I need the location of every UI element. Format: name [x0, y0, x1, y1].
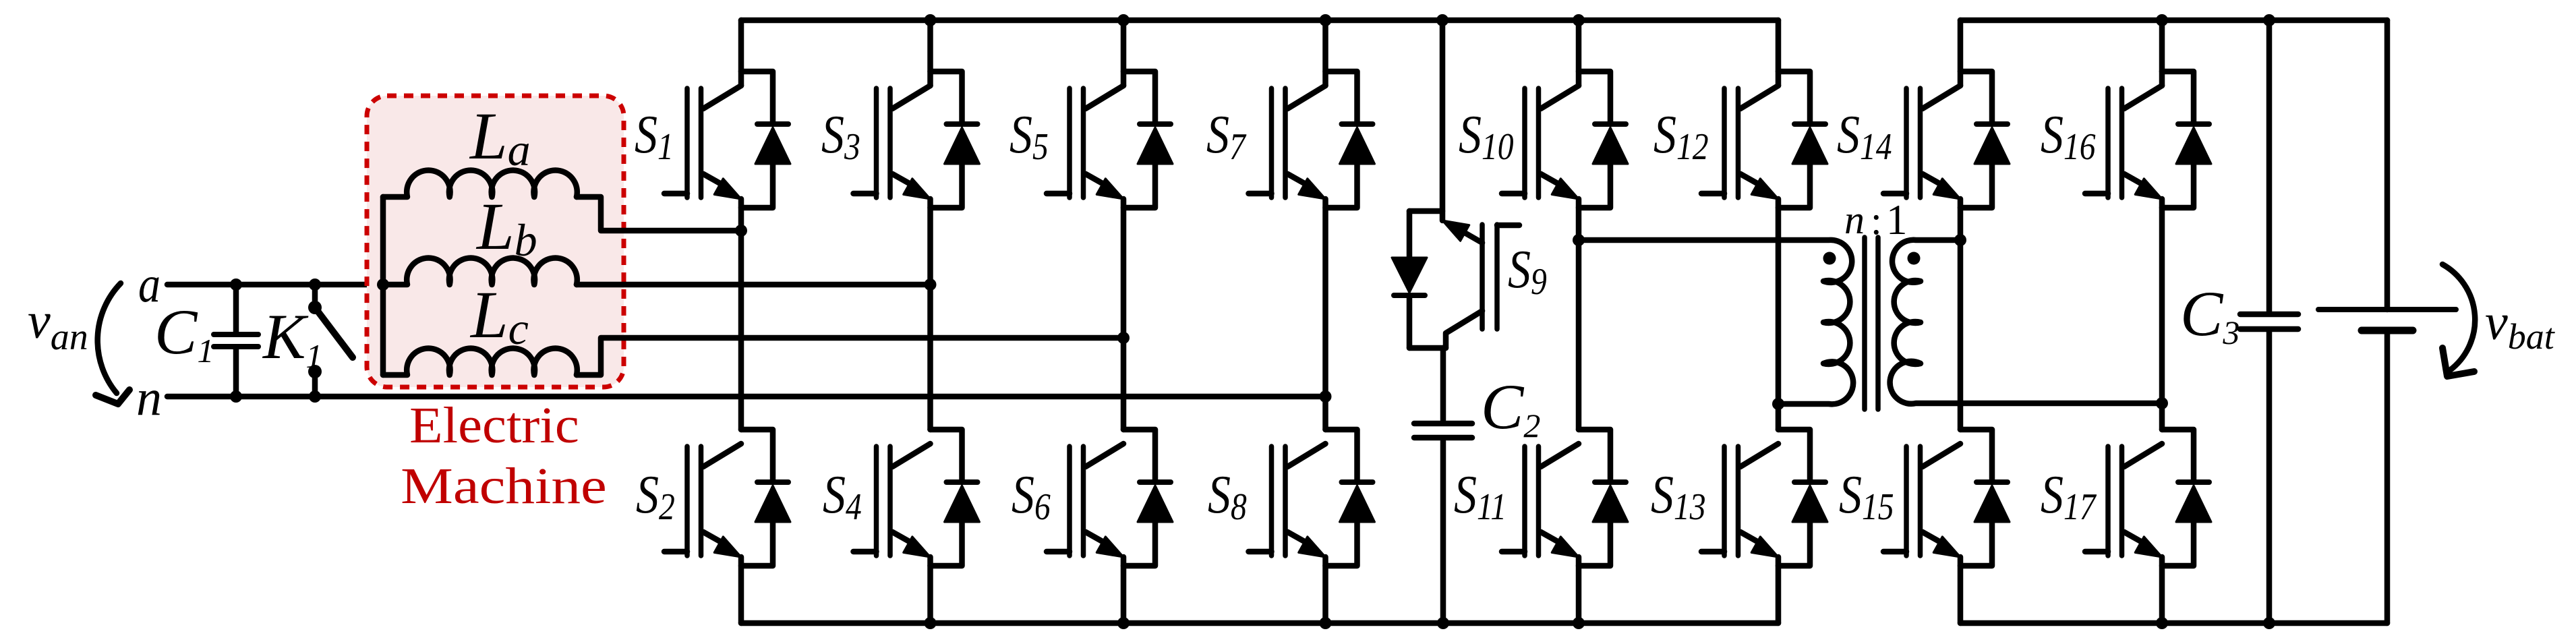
- junction top bus x=1965.5: [1320, 14, 1332, 26]
- capacitor C2 (clamp capacitor): [1414, 348, 1472, 623]
- node leg midpoint S3/S4: [925, 279, 937, 291]
- node leg midpoint S5/S6: [1117, 332, 1130, 344]
- label S8: [1208, 465, 1247, 528]
- label S14: [1837, 105, 1892, 168]
- label S4: [823, 465, 862, 528]
- label S17: [2041, 465, 2097, 528]
- svg-text:S17: S17: [2041, 465, 2097, 528]
- svg-text:S15: S15: [1839, 465, 1894, 528]
- label S6: [1012, 465, 1051, 528]
- switch K1 (contactor, open): [308, 285, 353, 397]
- label S16: [2041, 105, 2096, 168]
- svg-text:C3: C3: [2180, 278, 2240, 351]
- wire Lc output to leg S5/S6: [577, 338, 1123, 375]
- node leg midpoint S16/S17: [2156, 397, 2168, 409]
- transistor S3 (IGBT with freewheeling diode, upper switch): [854, 20, 980, 208]
- transformer core: [1862, 237, 1867, 409]
- wire leg midpoint vertical S1/S2: [738, 199, 744, 430]
- wire leg midpoint vertical S7/S8: [1322, 199, 1328, 430]
- label S1: [635, 105, 674, 168]
- wire top bus to S9 emitter: [1440, 20, 1446, 221]
- wire primary-side bottom DC bus: [741, 620, 1778, 626]
- svg-text:S14: S14: [1837, 105, 1892, 168]
- diode D9 (anti-parallel clamp diode): [1392, 211, 1446, 348]
- junction top bus x=1666: [1117, 14, 1130, 26]
- wire secondary-side top DC bus: [1960, 18, 2387, 24]
- junction bottom bus x=1379.5: [925, 617, 937, 629]
- wire leg midpoint vertical S16/S17: [2159, 199, 2165, 430]
- svg-text:S1: S1: [635, 105, 674, 168]
- wire La output to leg S1/S2: [577, 197, 741, 231]
- label Electric (machine caption line 1): [409, 397, 579, 453]
- svg-text:S6: S6: [1012, 465, 1051, 528]
- wire neutral n to leg S7/S8: [167, 394, 1326, 400]
- transistor S13 (IGBT with freewheeling diode, lower switch): [1701, 430, 1827, 623]
- wire leg midpoint vertical S14/S15: [1958, 199, 1964, 430]
- wire primary-side top DC bus: [741, 18, 1778, 24]
- wire leg midpoint vertical S10/S11: [1576, 199, 1582, 430]
- junction secondary top bus x=3206: [2156, 14, 2168, 26]
- transistor S6 (IGBT with freewheeling diode, lower switch): [1047, 430, 1173, 623]
- junction secondary bottom bus x=3206: [2156, 617, 2168, 629]
- junction top bus x=1379.5: [925, 14, 937, 26]
- wire leg midpoint vertical S12/S13: [1776, 199, 1782, 430]
- svg-text:S8: S8: [1208, 465, 1247, 528]
- junction C1 top: [230, 279, 242, 291]
- svg-text:n:1: n:1: [1844, 196, 1908, 243]
- svg-text:S12: S12: [1653, 105, 1709, 168]
- label S10: [1459, 105, 1514, 168]
- transistor S7 (IGBT with freewheeling diode, upper switch): [1249, 20, 1375, 208]
- svg-text:van: van: [28, 293, 88, 358]
- wire secondary-side bottom DC bus: [1960, 620, 2387, 626]
- node a (phase terminal label): [138, 257, 160, 313]
- svg-text:S7: S7: [1206, 105, 1247, 168]
- transistor S15 (IGBT with freewheeling diode, lower switch): [1883, 430, 2010, 623]
- junction bottom bus x=2341: [1573, 617, 1585, 629]
- wire leg midpoint vertical S3/S4: [927, 199, 933, 430]
- transistor S16 (IGBT with freewheeling diode, upper switch): [2085, 20, 2211, 208]
- transistor S1 (IGBT with freewheeling diode, upper switch): [664, 20, 790, 208]
- junction bottom bus x=1666: [1117, 617, 1130, 629]
- svg-text:S2: S2: [636, 465, 675, 528]
- voltage v_an curved arrow: [98, 283, 121, 393]
- wire S10/S11 midpoint to transformer primary + primary winding: [1579, 240, 1853, 404]
- label S3: [821, 105, 860, 168]
- label S5: [1009, 105, 1049, 168]
- junction bottom bus x=1965.5: [1320, 617, 1332, 629]
- label S15: [1839, 465, 1894, 528]
- node leg midpoint S10/S11: [1573, 234, 1585, 246]
- svg-text:C2: C2: [1481, 371, 1540, 444]
- junction C1 bottom: [230, 390, 242, 403]
- svg-text:vbat: vbat: [2485, 294, 2556, 357]
- label Machine (machine caption line 2): [401, 457, 607, 514]
- svg-text:C1: C1: [154, 296, 214, 370]
- wire leg midpoint vertical S5/S6: [1121, 199, 1127, 430]
- transistor S2 (IGBT with freewheeling diode, lower switch): [664, 430, 790, 623]
- junction K1 bottom: [309, 390, 321, 403]
- svg-text:S5: S5: [1009, 105, 1049, 168]
- transistor S10 (IGBT with freewheeling diode, upper switch): [1502, 20, 1628, 208]
- capacitor C1: [214, 285, 258, 397]
- transformer primary polarity dot: [1823, 252, 1836, 265]
- node leg midpoint S1/S2: [735, 225, 747, 237]
- junction secondary top bus x=3365: [2263, 14, 2275, 26]
- junction top bus x=2341: [1573, 14, 1585, 26]
- transistor S14 (IGBT with freewheeling diode, upper switch): [1883, 20, 2010, 208]
- label S12: [1653, 105, 1709, 168]
- svg-text:S11: S11: [1454, 465, 1506, 528]
- wire transformer secondary winding to S14/S15 and S16/S17 midpoints: [1890, 240, 2162, 404]
- transistor S5 (IGBT with freewheeling diode, upper switch): [1047, 20, 1173, 208]
- label S2: [636, 465, 675, 528]
- voltage v_bat curved arrow: [2442, 264, 2475, 370]
- svg-text:Electric: Electric: [409, 397, 579, 453]
- svg-text:S16: S16: [2041, 105, 2096, 168]
- inductor La (machine phase a winding): [383, 171, 577, 197]
- transistor S4 (IGBT with freewheeling diode, lower switch): [854, 430, 980, 623]
- svg-text:S10: S10: [1459, 105, 1514, 168]
- node leg midpoint S12/S13: [1772, 398, 1784, 410]
- inductor Lc (machine phase c winding): [383, 349, 577, 375]
- transistor S12 (IGBT with freewheeling diode, upper switch): [1701, 20, 1827, 208]
- junction machine star bus with phase a wire: [377, 279, 389, 291]
- junction top bus x=2139: [1436, 14, 1448, 26]
- svg-text:Machine: Machine: [401, 457, 607, 514]
- inductor Lb (machine phase b winding): [383, 258, 577, 285]
- transistor S11 (IGBT with freewheeling diode, lower switch): [1502, 430, 1628, 623]
- label S11: [1454, 465, 1506, 528]
- electric machine boundary box (red dashed): [367, 96, 624, 387]
- capacitor C3 (battery-side filter): [2240, 20, 2298, 623]
- label S9: [1508, 240, 1547, 303]
- label S7: [1206, 105, 1247, 168]
- wire phase a terminal to machine: [167, 282, 383, 288]
- node leg midpoint S7/S8: [1320, 390, 1332, 403]
- svg-text:S13: S13: [1651, 465, 1706, 528]
- transistor S17 (IGBT with freewheeling diode, lower switch): [2085, 430, 2211, 623]
- svg-text:S3: S3: [821, 105, 860, 168]
- junction bottom bus x=2140: [1437, 617, 1449, 629]
- machine star-point bus wire: [380, 197, 386, 375]
- transistor S8 (IGBT with freewheeling diode, lower switch): [1249, 430, 1375, 623]
- battery v_bat (DC source): [2318, 20, 2456, 623]
- svg-text:n: n: [136, 370, 162, 426]
- junction K1 top: [309, 279, 321, 291]
- transformer secondary polarity dot: [1908, 252, 1921, 265]
- transistor S9 (clamp IGBT, rotated): [1442, 221, 1519, 348]
- junction secondary bottom bus x=3365: [2263, 617, 2275, 629]
- node leg midpoint S14/S15: [1954, 234, 1966, 246]
- wire Lb output to leg S3/S4: [577, 282, 931, 288]
- svg-text:S4: S4: [823, 465, 862, 528]
- label S13: [1651, 465, 1706, 528]
- svg-text:S9: S9: [1508, 240, 1547, 303]
